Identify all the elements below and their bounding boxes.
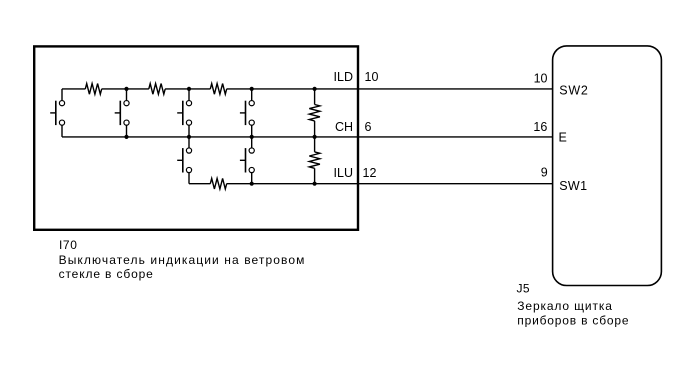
svg-text:I70: I70 <box>59 238 77 252</box>
pin 16 (J5 side) <box>533 120 547 134</box>
junction node 6 <box>187 135 191 139</box>
junction node 8 <box>313 135 317 139</box>
resistor (between switch 3 and switch 4) <box>210 84 226 95</box>
junction node 3 <box>250 87 254 91</box>
svg-text:10: 10 <box>365 70 379 84</box>
pin 12 (I70 side) <box>363 166 377 180</box>
resistor (on ILU bus between switch 5 and switch 6) <box>210 178 226 189</box>
svg-text:ILU: ILU <box>334 166 353 180</box>
svg-text:Выключатель индикации на ветро: Выключатель индикации на ветровом <box>59 253 306 267</box>
label ILD <box>334 70 353 84</box>
svg-text:10: 10 <box>534 71 548 85</box>
svg-text:16: 16 <box>533 120 547 134</box>
box I70 (windshield indicator switch assembly) <box>34 46 358 229</box>
designator I70 <box>59 238 77 252</box>
resistor (between switch 2 and switch 3) <box>149 84 165 95</box>
label ILU <box>334 166 353 180</box>
resistor (vertical, CH to ILU) <box>309 137 320 184</box>
label E <box>559 130 567 144</box>
caption I70 line 1 <box>59 253 306 267</box>
junction node 1 <box>124 87 128 91</box>
svg-text:12: 12 <box>363 166 377 180</box>
junction node 9 <box>250 182 254 186</box>
wire ILD bus (pin 10 to SW2 pin 10) <box>62 88 553 90</box>
designator J5 <box>517 281 530 295</box>
svg-text:приборов в сборе: приборов в сборе <box>517 314 629 328</box>
svg-text:6: 6 <box>365 120 372 134</box>
resistor (vertical, ILD to CH) <box>309 89 320 137</box>
svg-text:CH: CH <box>335 120 353 134</box>
caption J5 line 1 <box>517 299 613 313</box>
junction node 2 <box>187 87 191 91</box>
pin 10 (J5 side) <box>534 71 548 85</box>
wire ILU bus (pin 12 to SW1 pin 9) <box>189 183 553 185</box>
switch 6 (pushbutton, CH-ILU) <box>240 137 254 184</box>
caption J5 line 2 <box>517 314 629 328</box>
label SW2 <box>559 84 589 98</box>
junction node 5 <box>124 135 128 139</box>
svg-text:E: E <box>559 130 567 144</box>
switch 3 (pushbutton, ILD-CH) <box>177 89 191 137</box>
caption I70 line 2 <box>59 267 154 281</box>
switch 4 (pushbutton, ILD-CH) <box>240 89 254 137</box>
label CH <box>335 120 353 134</box>
switch 2 (pushbutton, ILD-CH) <box>115 89 129 137</box>
junction node 7 <box>250 135 254 139</box>
svg-text:Зеркало щитка: Зеркало щитка <box>517 299 613 313</box>
pin 6 (I70 side) <box>365 120 372 134</box>
svg-text:9: 9 <box>541 166 548 180</box>
wire CH bus (pin 6 to E pin 16) <box>62 136 553 138</box>
junction node 4 <box>313 87 317 91</box>
switch 5 (pushbutton, CH-ILU) <box>177 137 191 184</box>
pin 9 (J5 side) <box>541 166 548 180</box>
switch 1 (pushbutton, ILD-CH) <box>50 89 64 137</box>
svg-text:J5: J5 <box>517 281 530 295</box>
svg-text:стекле в сборе: стекле в сборе <box>59 267 154 281</box>
label SW1 <box>559 179 587 193</box>
pin 10 (I70 side) <box>365 70 379 84</box>
connector J5 (instrument panel mirror assembly) <box>553 46 662 286</box>
resistor (between switch 1 and switch 2) <box>85 84 101 95</box>
svg-text:SW2: SW2 <box>559 84 589 98</box>
svg-text:ILD: ILD <box>334 70 353 84</box>
junction node 10 <box>313 182 317 186</box>
svg-text:SW1: SW1 <box>559 179 587 193</box>
